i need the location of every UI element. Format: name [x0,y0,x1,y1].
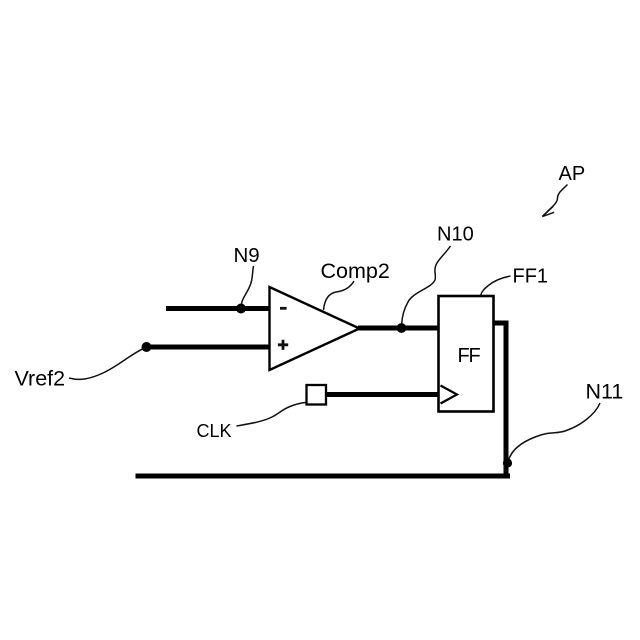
node Vref2 (dot at left end of wire) [142,342,152,352]
plus sign (non-inverting input label) [278,340,288,350]
flip-flop FF1 (rectangle) [439,296,494,412]
wire: long bottom wire N11 [136,474,511,479]
svg-text:Vref2: Vref2 [15,367,66,391]
svg-text:N9: N9 [234,244,260,267]
leader from Comp2 label to triangle edge [324,281,355,310]
node N10 (dot on comparator output wire) [397,323,407,333]
leader from N9 label to node N9 [242,266,254,304]
svg-text:FF: FF [458,345,481,367]
leader from N10 label to node N10 [402,246,451,324]
wire: top input to comparator inverting input [166,306,270,311]
svg-text:N10: N10 [437,224,474,246]
wire: clock wire from CLK square to FF clock input [325,392,440,397]
arrow from AP label pointing down-left [543,185,568,217]
leader from CLK label to CLK square [237,403,306,427]
svg-text:CLK: CLK [197,421,232,441]
wire: FF output, right then down [494,323,507,476]
node N11 (dot on vertical wire above corner) [503,458,512,467]
leader from FF1 label to FF box top edge [481,276,511,296]
leader from N11 label to node N11 [509,403,601,460]
svg-text:N11: N11 [586,380,624,404]
svg-text:Comp2: Comp2 [321,259,390,283]
minus sign (inverting input label) [280,307,287,310]
open arrowhead of AP arrow [542,206,554,216]
svg-text:AP: AP [559,163,586,185]
CLK source square [307,385,327,405]
node N9 (junction dot on top input wire) [236,304,246,314]
wire: Vref2 input to comparator non-inverting input [147,345,270,350]
wire: comparator output to FF input [358,326,439,331]
svg-text:FF1: FF1 [513,266,549,288]
clock input triangle on FF left edge [441,386,458,404]
leader from Vref2 label to Vref2 node [69,348,145,379]
op-amp comparator Comp2 (triangle) [270,287,360,370]
